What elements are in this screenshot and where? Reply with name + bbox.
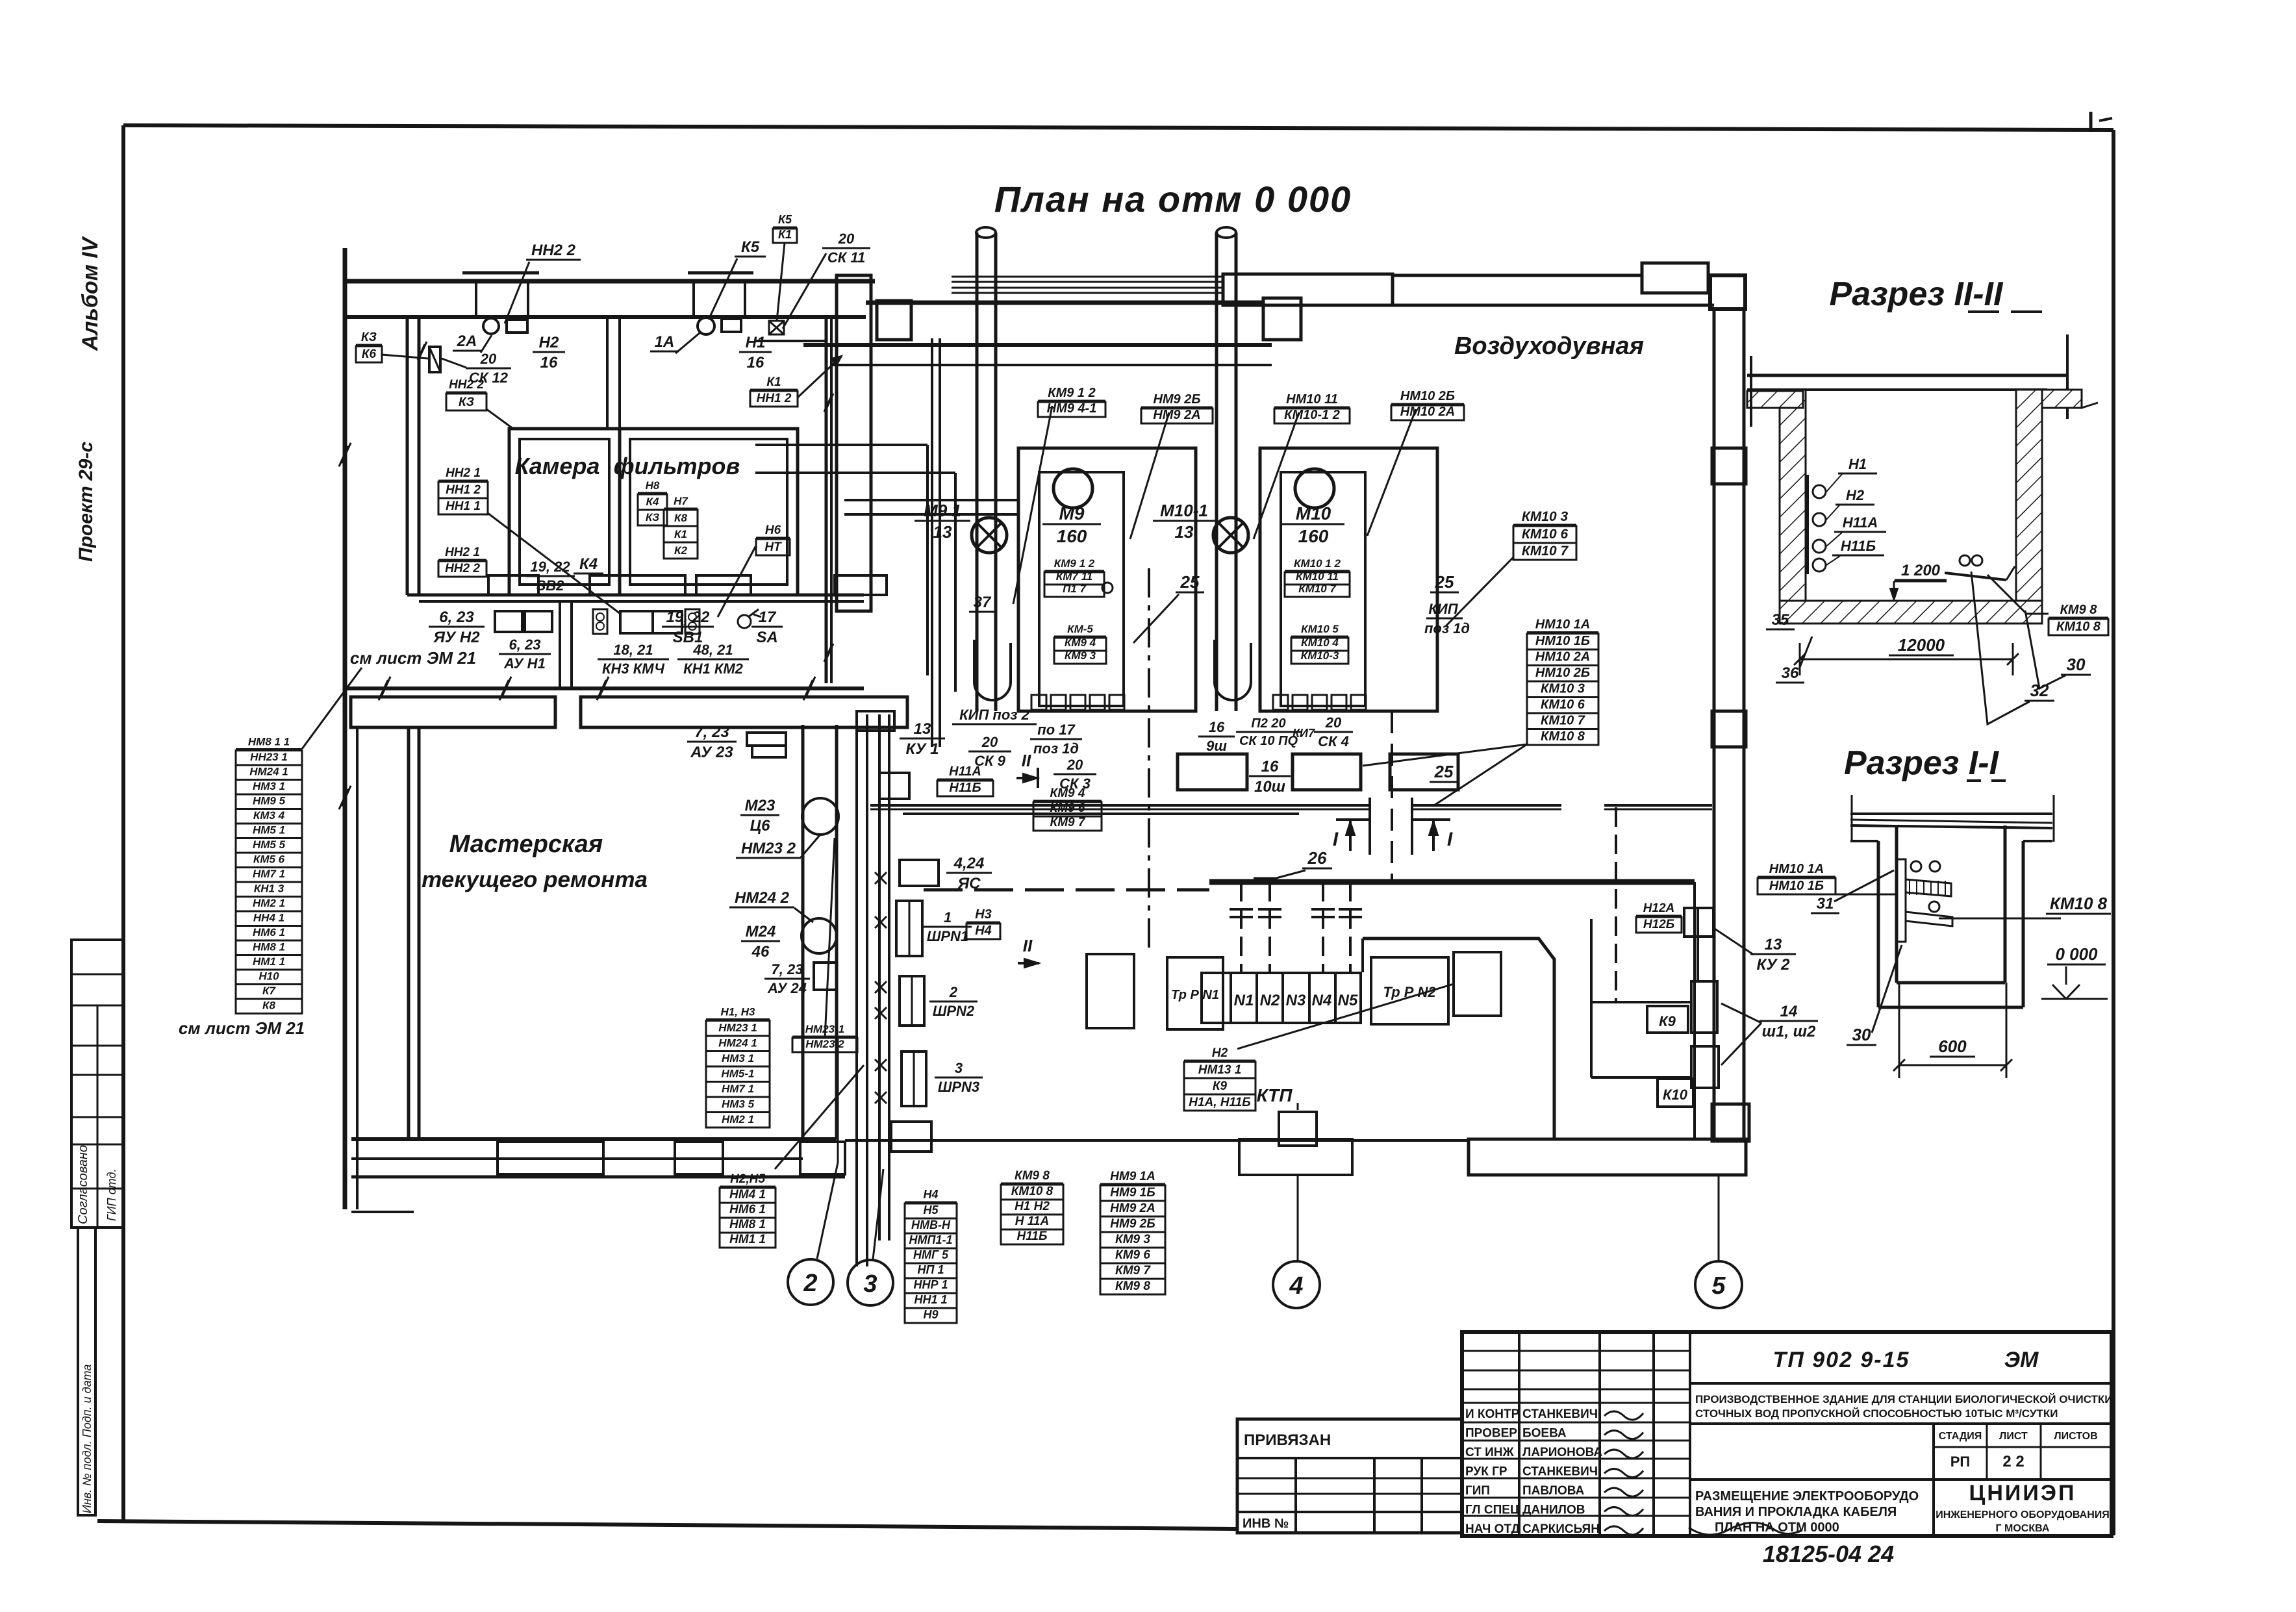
svg-text:НМВ-Н: НМВ-Н [911, 1218, 951, 1231]
svg-text:НМ24 1: НМ24 1 [718, 1037, 757, 1050]
top line right a [1393, 274, 1642, 277]
svg-text:2А: 2А [457, 333, 477, 350]
label NN2 2/K3 [446, 378, 486, 410]
svg-text:II: II [1023, 936, 1033, 955]
svg-text:КМ10 8: КМ10 8 [1541, 729, 1585, 744]
wall break mark left 1 [339, 443, 351, 466]
svg-text:НМ23 1: НМ23 1 [718, 1022, 757, 1034]
cable to right y1248 [903, 812, 1299, 815]
svg-text:12000: 12000 [1898, 635, 1945, 655]
label 20/SK3 [1053, 757, 1096, 792]
cable line y1248 [870, 805, 1712, 809]
svg-text:НН2 1: НН2 1 [445, 546, 480, 559]
section I-I title [1844, 744, 2006, 782]
lintel above wall right [688, 271, 753, 275]
svg-text:НМ24 2: НМ24 2 [735, 889, 790, 907]
svg-text:Н6: Н6 [765, 523, 781, 537]
leader NM23 2 [801, 835, 820, 857]
svg-text:фильтров: фильтров [614, 453, 740, 479]
svg-text:КЗ: КЗ [361, 331, 377, 344]
leader to tall stack [1363, 744, 1527, 766]
column top [1712, 448, 1746, 484]
leader tall stack [1434, 744, 1527, 805]
svg-text:20: 20 [981, 734, 998, 750]
window opening 3 [800, 1142, 845, 1174]
label M9 1/13 [915, 501, 970, 542]
label 13/KU1 [900, 720, 945, 758]
label 32 [2025, 681, 2054, 701]
bottom-left corner stub [351, 1211, 414, 1213]
stack N1,N3 [706, 1006, 770, 1128]
AU24 box [814, 963, 837, 990]
svg-text:Н11А: Н11А [1843, 514, 1878, 531]
svg-text:II: II [1022, 751, 1031, 770]
label 2/ShRN2 [929, 984, 978, 1019]
I-I top slab [1850, 795, 2054, 842]
svg-text:N1: N1 [1234, 992, 1254, 1009]
svg-text:25: 25 [1180, 572, 1200, 592]
leader NN11 to device [488, 513, 620, 614]
label 30 IIII [2061, 655, 2091, 675]
section II flag bottom [1018, 936, 1039, 968]
svg-text:К9: К9 [1659, 1013, 1676, 1029]
leader 25 center [1133, 594, 1179, 643]
svg-text:по 17: по 17 [1037, 722, 1076, 738]
svg-text:ПРОИЗВОДСТВЕННОЕ ЗДАНИЕ ДЛЯ СТ: ПРОИЗВОДСТВЕННОЕ ЗДАНИЕ ДЛЯ СТАНЦИИ БИОЛ… [1695, 1393, 2113, 1405]
label 16/9sh [1198, 719, 1235, 754]
leader N2N5 stack [775, 1065, 864, 1169]
svg-text:СТ ИНЖ: СТ ИНЖ [1465, 1446, 1515, 1459]
svg-text:КМ5 6: КМ5 6 [253, 853, 285, 866]
svg-text:КУ 1: КУ 1 [905, 740, 939, 758]
svg-text:КМ10 8: КМ10 8 [1011, 1185, 1053, 1198]
svg-text:НМ3 1: НМ3 1 [253, 780, 285, 792]
masterskaya interior wall pair [409, 727, 419, 1139]
label NM23 2 [736, 840, 801, 858]
svg-text:ЛИСТОВ: ЛИСТОВ [2054, 1431, 2097, 1442]
svg-text:Согласовано: Согласовано [76, 1145, 90, 1224]
break right rooms wall 2 [824, 644, 833, 662]
label 1A [650, 333, 679, 351]
K assembly lines [1591, 908, 1698, 1077]
machine hall top wall inner [803, 343, 1272, 347]
label po17 [1030, 722, 1082, 757]
box right of TrP N2 [1454, 952, 1501, 1016]
svg-text:КМ10 7: КМ10 7 [1541, 714, 1585, 728]
U pipe M10 [1215, 640, 1251, 700]
svg-text:НМ13 1: НМ13 1 [1198, 1063, 1242, 1077]
svg-text:ГИП: ГИП [1465, 1484, 1490, 1498]
leader 32 [1971, 572, 2030, 724]
svg-text:НМ8 1: НМ8 1 [253, 941, 285, 953]
label NM10 11 [1274, 392, 1350, 423]
svg-text:НМ9 2А: НМ9 2А [1110, 1202, 1155, 1215]
drawing frame [97, 125, 2113, 1535]
leader SK11 [783, 253, 826, 329]
svg-text:НМ2 1: НМ2 1 [722, 1113, 754, 1126]
svg-text:ЦНИИЭП: ЦНИИЭП [1969, 1481, 2076, 1505]
svg-text:НМ10 2Б: НМ10 2Б [1535, 666, 1590, 680]
svg-text:НН1 1: НН1 1 [446, 499, 481, 513]
hall left wall pair [932, 338, 940, 747]
svg-text:НМ10 2А: НМ10 2А [1535, 650, 1590, 664]
leader K5K1 [777, 243, 785, 321]
hook leaders [1826, 474, 1842, 565]
leader KM9 8 [1987, 575, 2049, 614]
leader K5 [709, 258, 737, 320]
svg-text:КМ9 4: КМ9 4 [1065, 636, 1096, 649]
svg-text:М23: М23 [745, 797, 776, 814]
svg-text:Г МОСКВА: Г МОСКВА [1996, 1523, 2050, 1534]
leader 2A [481, 335, 492, 353]
svg-text:М10-1: М10-1 [1160, 501, 1208, 520]
heavy bus y1358 [1209, 879, 1695, 885]
svg-text:НМ5-1: НМ5-1 [721, 1068, 754, 1080]
room kamera outer [509, 429, 620, 595]
svg-text:КМ-5: КМ-5 [1067, 623, 1093, 635]
dash line between pumps [1391, 711, 1393, 882]
svg-text:НМ10 11: НМ10 11 [1286, 392, 1338, 407]
label 18,21 [598, 642, 669, 677]
svg-text:НМ24 1: НМ24 1 [249, 766, 288, 778]
svg-text:НМП1-1: НМП1-1 [909, 1233, 953, 1246]
svg-text:КЗ: КЗ [646, 511, 659, 523]
svg-text:НМ10 1А: НМ10 1А [1769, 862, 1824, 876]
ShR1 box [896, 901, 922, 956]
label 14/sh1sh2 [1760, 1003, 1818, 1040]
svg-text:КМ9 1 2: КМ9 1 2 [1048, 386, 1095, 400]
rooms middle wall pair [607, 319, 620, 429]
svg-text:ЛАРИОНОВА: ЛАРИОНОВА [1522, 1446, 1602, 1459]
box 16/10sh [1293, 754, 1361, 790]
svg-text:13: 13 [933, 522, 952, 542]
svg-text:КМ10 7: КМ10 7 [1522, 544, 1569, 559]
svg-text:К4: К4 [646, 496, 659, 508]
device SB2 box [593, 609, 607, 634]
label 7,23/AU24 [764, 961, 810, 996]
svg-text:I: I [1333, 829, 1339, 850]
svg-text:ШРN3: ШРN3 [938, 1079, 979, 1095]
section I flag left [1333, 820, 1370, 851]
label 13/KU2 [1750, 936, 1796, 974]
svg-text:НМ1 1: НМ1 1 [729, 1233, 766, 1246]
leader circle 3 [873, 1169, 883, 1259]
svg-text:20: 20 [480, 351, 497, 367]
label 1.200 [1895, 562, 1947, 580]
sheet title [1695, 1489, 1919, 1535]
svg-text:НМ3 1: НМ3 1 [722, 1052, 754, 1064]
svg-text:НМГ 5: НМГ 5 [913, 1248, 949, 1261]
svg-text:НМ6 1: НМ6 1 [729, 1203, 766, 1216]
KTP drop line [1297, 1175, 1299, 1261]
bottom wall line [845, 1139, 1469, 1142]
leader KM9 to pump [1013, 406, 1052, 604]
tall right stack NM10 [1527, 618, 1598, 746]
svg-text:4: 4 [1289, 1272, 1303, 1300]
svg-text:КН1 КМ2: КН1 КМ2 [683, 661, 744, 677]
svg-text:ННР 1: ННР 1 [913, 1278, 948, 1291]
svg-text:Н1: Н1 [746, 334, 766, 351]
label 35 [1766, 611, 1795, 629]
svg-text:К4: К4 [579, 555, 598, 573]
label 16/10sh [1249, 758, 1291, 796]
stack KM10 3/6/7 [1513, 509, 1576, 560]
svg-text:13: 13 [1765, 936, 1782, 953]
title block signatures [1604, 1411, 1643, 1535]
svg-text:СК 10 ПQ: СК 10 ПQ [1239, 734, 1298, 748]
label K5 [735, 238, 766, 257]
column mid [1712, 711, 1746, 747]
top right column [1710, 275, 1745, 309]
dim line 12000 [1794, 643, 2019, 675]
svg-text:Н1 Н2: Н1 Н2 [1015, 1200, 1050, 1213]
machine hall top wall outer [866, 301, 1263, 305]
frame top-right tick [2091, 112, 2112, 132]
pipe column 2 [1217, 227, 1236, 711]
wall device x right [769, 321, 784, 334]
label K4 [574, 555, 603, 573]
dashed vertical right [1615, 807, 1617, 1002]
label KM10 8 sec [2046, 894, 2111, 914]
label 25 right [1424, 572, 1470, 636]
svg-text:SA: SA [756, 629, 777, 646]
title block outer [1462, 1332, 2112, 1536]
svg-text:ШРN2: ШРN2 [933, 1003, 975, 1019]
leader 30 I-I [1872, 945, 1902, 1033]
hall pipe pair horizontal [844, 500, 1018, 514]
svg-text:НМ10 1Б: НМ10 1Б [1769, 879, 1824, 893]
pedestal 3 [696, 575, 751, 595]
svg-text:НН2 2: НН2 2 [531, 242, 576, 259]
svg-text:БОЕВА: БОЕВА [1522, 1427, 1567, 1441]
svg-text:К8: К8 [262, 1000, 275, 1012]
corridor band line [345, 686, 864, 690]
svg-text:КМ9 7: КМ9 7 [1115, 1264, 1151, 1278]
room filtrov outer [620, 429, 798, 595]
circle node 5 [1695, 1261, 1742, 1308]
svg-text:2: 2 [949, 984, 958, 1000]
II-II top slab [1747, 334, 2069, 419]
transformer TrP N2 [1371, 957, 1448, 1024]
ShR2 box [900, 976, 924, 1026]
svg-text:Н4: Н4 [923, 1188, 938, 1201]
label 12000 [1889, 635, 1954, 655]
leader sh1sh2 [1721, 1003, 1761, 1065]
privyazan box [1237, 1419, 1462, 1533]
riser top box [857, 711, 894, 731]
svg-text:КТП: КТП [1257, 1085, 1293, 1105]
svg-text:КН3 КМЧ: КН3 КМЧ [602, 661, 664, 677]
arrow 1.200 [1890, 581, 1947, 600]
wall device box right [722, 319, 741, 332]
U pipe M9 [974, 640, 1011, 700]
leader NM24 2 [794, 908, 813, 922]
column bottom [1712, 1104, 1749, 1141]
svg-text:РП: РП [1950, 1454, 1971, 1470]
section II cut line [1148, 568, 1150, 953]
svg-text:Разрез I-I: Разрез I-I [1844, 744, 2000, 782]
svg-text:НМ3 5: НМ3 5 [722, 1098, 755, 1111]
svg-text:НН2 1: НН2 1 [446, 466, 481, 480]
label 26 [1302, 848, 1332, 868]
leader NM23-1 [825, 838, 835, 1038]
corridor lower band left [351, 697, 555, 727]
svg-text:М9 1: М9 1 [924, 501, 961, 520]
svg-text:К2: К2 [674, 544, 687, 557]
svg-text:ШРN1: ШРN1 [927, 928, 968, 944]
svg-text:ЯУ Н2: ЯУ Н2 [433, 629, 480, 646]
svg-text:600: 600 [1938, 1037, 1967, 1056]
label 7,23/AU23 [687, 724, 737, 761]
svg-text:НМ5 5: НМ5 5 [253, 838, 286, 851]
duct wide band [1223, 274, 1393, 305]
svg-text:поз 1д: поз 1д [1424, 620, 1470, 636]
svg-text:3: 3 [863, 1270, 877, 1298]
svg-text:7, 23: 7, 23 [772, 961, 803, 977]
leader 26 [1254, 870, 1306, 878]
svg-text:НМ9 1А: НМ9 1А [1110, 1170, 1155, 1183]
label 6,23/AU N1 [499, 636, 551, 672]
masterskaya right wall [803, 725, 837, 1139]
hall right wall [1714, 309, 1744, 1139]
label N11B hook [1832, 538, 1884, 555]
pump M10 inner [1281, 472, 1365, 706]
svg-text:ВАНИЯ И ПРОКЛАДКА КАБЕЛЯ: ВАНИЯ И ПРОКЛАДКА КАБЕЛЯ [1695, 1505, 1897, 1519]
masterskaya left inner wall [356, 727, 359, 1209]
svg-text:Н12Б: Н12Б [1643, 918, 1674, 931]
label N11A hook [1834, 514, 1886, 532]
svg-text:1 200: 1 200 [1901, 562, 1941, 579]
pipe column 1 [976, 227, 996, 711]
svg-text:КМ3 4: КМ3 4 [253, 809, 285, 822]
leader NN22K3 [486, 409, 513, 429]
svg-text:К7: К7 [262, 985, 276, 997]
svg-text:160: 160 [1298, 526, 1329, 546]
title block names [1465, 1407, 1602, 1536]
wall stub 3 [692, 281, 695, 317]
svg-text:160: 160 [1057, 526, 1087, 546]
svg-text:НМ10 2А: НМ10 2А [1400, 405, 1455, 419]
svg-text:СТАДИЯ: СТАДИЯ [1939, 1431, 1982, 1442]
svg-text:РУК ГР: РУК ГР [1465, 1465, 1508, 1479]
wall device motor right [698, 318, 714, 334]
motor M10-1 symbol [1213, 518, 1248, 553]
svg-text:ПАВЛОВА: ПАВЛОВА [1522, 1484, 1585, 1498]
svg-text:Мастерская: Мастерская [449, 831, 603, 858]
label 20/SK11 [822, 231, 870, 266]
label 19,22/SB1 [662, 609, 714, 646]
svg-text:НМ9 2Б: НМ9 2Б [1153, 392, 1200, 407]
svg-text:ПРОВЕР: ПРОВЕР [1465, 1427, 1517, 1441]
svg-text:7, 23: 7, 23 [694, 724, 729, 741]
svg-text:Н1А, Н11Б: Н1А, Н11Б [1189, 1096, 1250, 1109]
label 1/ShRN1 [924, 909, 972, 944]
label KM9 8 / KM10 8 [2049, 603, 2108, 635]
svg-text:Н 11А: Н 11А [1015, 1215, 1049, 1228]
circle node 3 [848, 1260, 893, 1305]
left big stack [236, 736, 302, 1014]
cable riser pair A [857, 714, 867, 1266]
AU23 box [747, 733, 786, 757]
stack KM-5 [1054, 623, 1106, 664]
svg-text:13: 13 [1175, 522, 1194, 542]
duct bundle [952, 277, 1223, 293]
N12A/N12B label [1636, 901, 1682, 933]
svg-text:НМ8 1 1: НМ8 1 1 [248, 736, 290, 748]
svg-text:48, 21: 48, 21 [692, 642, 733, 658]
cable riser pair B [879, 714, 889, 1240]
section I flag right [1412, 820, 1453, 851]
svg-text:СТАНКЕВИЧ: СТАНКЕВИЧ [1522, 1465, 1598, 1479]
svg-text:Н1, Н3: Н1, Н3 [721, 1006, 755, 1018]
M24 circle [801, 918, 837, 953]
door jamb verticals [560, 601, 572, 688]
label NM10 1A/1B sec [1758, 862, 1836, 894]
svg-text:НМ10 2Б: НМ10 2Б [1400, 389, 1455, 403]
top right duct box [1642, 263, 1708, 293]
svg-text:СК 9: СК 9 [974, 753, 1006, 769]
svg-text:НМ9 4-1: НМ9 4-1 [1047, 401, 1097, 416]
svg-text:НМ23 2: НМ23 2 [741, 840, 796, 857]
section II-II title [1830, 275, 2042, 313]
svg-text:25: 25 [1435, 572, 1454, 592]
label N2 hook [1836, 487, 1874, 505]
break on interior wall [418, 342, 427, 360]
label M24 [741, 923, 780, 961]
svg-text:19, 22: 19, 22 [666, 609, 710, 626]
label KIP poz2 [952, 707, 1037, 724]
bus drops [1230, 882, 1362, 973]
II-II left wall hatched [1780, 390, 1806, 622]
svg-text:К5: К5 [741, 238, 760, 256]
svg-text:НМ2 1: НМ2 1 [253, 897, 285, 909]
leader 31 [1834, 870, 1894, 901]
svg-text:36: 36 [1782, 664, 1799, 682]
pedestal 2 [590, 575, 685, 595]
label 31 [1811, 895, 1839, 913]
leader SK12 [442, 359, 466, 368]
KU1 box [879, 773, 909, 799]
svg-text:П1 7: П1 7 [1063, 583, 1087, 595]
corridor break 3 [597, 677, 609, 700]
box left of 16/10sh [1178, 754, 1247, 790]
stack N4 [905, 1188, 957, 1323]
section II flag top [1016, 751, 1038, 788]
elevation mark [2041, 966, 2108, 999]
label N1/16 [739, 334, 772, 372]
svg-text:КМ10 7: КМ10 7 [1298, 583, 1337, 595]
svg-text:6, 23: 6, 23 [439, 609, 474, 626]
svg-text:N5: N5 [1338, 992, 1358, 1009]
svg-text:ЭМ: ЭМ [2004, 1348, 2039, 1372]
top wall box left [877, 301, 911, 340]
svg-text:АУ 24: АУ 24 [767, 980, 807, 996]
svg-text:М9: М9 [1059, 503, 1085, 523]
stack NN2 1 [438, 466, 488, 514]
label 20/SK12 [466, 351, 511, 386]
leader N6 [718, 546, 756, 617]
K9 label box [1647, 1006, 1688, 1033]
corridor wall b [755, 445, 955, 692]
svg-text:1А: 1А [655, 333, 675, 351]
svg-text:2 2: 2 2 [2002, 1453, 2024, 1470]
svg-text:НМ9 1Б: НМ9 1Б [1110, 1186, 1155, 1200]
stack NM23-1 [792, 1023, 857, 1052]
svg-text:НМ10 1Б: НМ10 1Б [1535, 634, 1590, 648]
svg-text:ПРИВЯЗАН: ПРИВЯЗАН [1244, 1431, 1331, 1449]
break right rooms wall [824, 394, 833, 412]
corridor lower band right [581, 697, 907, 727]
